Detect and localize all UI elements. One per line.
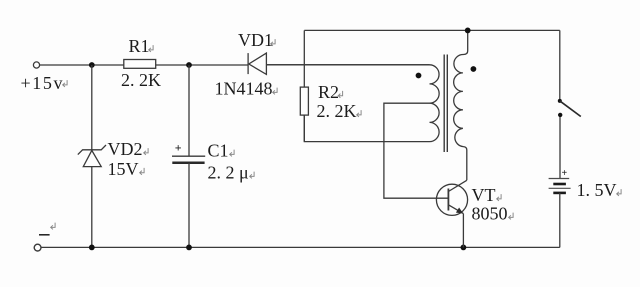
svg-text:R1: R1 <box>129 36 150 56</box>
diode VD1 <box>248 53 266 74</box>
svg-text:+: + <box>562 168 568 179</box>
svg-text:2. 2K: 2. 2K <box>317 101 357 121</box>
svg-text:8050: 8050 <box>472 204 508 224</box>
return mark after 1N4148 <box>273 88 277 95</box>
node junction top rail / C1 branch <box>186 62 192 68</box>
svg-text:VT: VT <box>472 185 496 205</box>
return mark after 1.5V <box>617 189 621 196</box>
svg-text:1N4148: 1N4148 <box>215 79 273 99</box>
resistor R1 <box>124 60 156 69</box>
svg-text:2. 2K: 2. 2K <box>121 70 161 90</box>
resistor R2 <box>300 87 308 115</box>
svg-text:C1: C1 <box>208 141 229 161</box>
return mark after VT <box>497 194 501 201</box>
svg-text:1. 5V: 1. 5V <box>577 180 617 200</box>
capacitor C1 <box>172 156 205 163</box>
return mark after C1 <box>230 150 234 157</box>
return mark after 15V <box>140 168 144 175</box>
wire VD1 to transformer primary <box>266 64 429 66</box>
svg-text:+: + <box>175 141 182 155</box>
wire top-left <box>40 64 124 66</box>
battery GB 1.5V <box>549 179 571 193</box>
return mark after R2 value <box>357 110 361 117</box>
node junction top rail / secondary <box>465 28 471 34</box>
terminal minus <box>34 244 41 251</box>
transistor VT body circle <box>436 184 467 215</box>
wire C1 branch lower <box>188 163 190 248</box>
return mark after 8050 <box>509 213 513 220</box>
svg-text:2. 2 μ: 2. 2 μ <box>208 163 249 183</box>
node junction top rail / VD2 branch <box>89 62 95 68</box>
wire emitter to bottom rail <box>462 214 464 248</box>
return mark after +15v <box>63 80 67 87</box>
return mark after minus <box>51 223 55 230</box>
return mark after R1 <box>149 45 153 52</box>
svg-text:15V: 15V <box>108 159 139 179</box>
node junction bottom rail / VD2 <box>89 245 95 251</box>
transistor VT emitter line with arrow <box>448 205 463 214</box>
wire primary tap to base <box>384 103 449 198</box>
wire top rail <box>304 29 560 31</box>
wire battery to bottom rail <box>559 193 561 248</box>
phasing dot secondary <box>471 66 477 72</box>
transistor VT collector line <box>448 180 466 191</box>
svg-text:R2: R2 <box>318 82 339 102</box>
zener diode VD2 <box>78 145 106 167</box>
transformer T1 primary winding <box>266 65 439 142</box>
wire bottom rail <box>41 246 560 248</box>
wire VD2 branch lower <box>91 167 93 248</box>
wire right rail upper <box>559 30 561 101</box>
node junction bottom rail / C1 <box>186 245 192 251</box>
wire switch to battery <box>559 117 561 179</box>
switch S1 blade <box>560 101 581 117</box>
wire C1 branch upper <box>188 65 190 156</box>
svg-text:VD2: VD2 <box>108 139 143 159</box>
return mark after 2.2u <box>250 172 254 179</box>
terminal +15v <box>33 62 39 68</box>
wire R1 to VD1 <box>156 64 248 66</box>
transformer T1 secondary winding <box>454 30 468 180</box>
return mark after VD1 <box>271 39 275 46</box>
transformer core <box>444 55 447 153</box>
wire top rail drop to R2 <box>303 30 305 87</box>
wire R2 bottom <box>303 115 305 142</box>
svg-text:+15v: +15v <box>21 73 65 93</box>
switch S1 lower contact <box>558 113 562 117</box>
switch S1 upper contact <box>558 99 562 103</box>
return mark after R2 <box>338 91 342 98</box>
return mark after VD2 <box>144 148 148 155</box>
svg-text:VD1: VD1 <box>238 30 273 50</box>
wire VD2 branch upper <box>91 65 93 150</box>
label minus <box>39 234 50 236</box>
phasing dot primary <box>416 73 422 79</box>
transistor VT base bar <box>447 189 449 211</box>
node junction bottom rail / emitter <box>461 245 467 251</box>
